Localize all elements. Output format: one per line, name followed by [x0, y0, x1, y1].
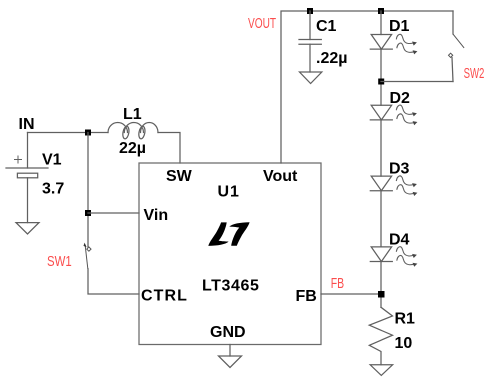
- svg-text:Vin: Vin: [144, 207, 169, 224]
- wire battery top lead: [27, 133, 29, 169]
- wire D1 to D2: [380, 49, 382, 105]
- node C1 junction dot: [307, 8, 313, 14]
- capacitor C1: [309, 11, 311, 40]
- LED D2: [370, 105, 417, 125]
- logo LT swoosh left: [208, 222, 228, 246]
- wire D3 to D4: [380, 191, 382, 247]
- node D1 top junction dot: [378, 8, 384, 14]
- battery V1: [6, 156, 48, 178]
- wire Vin tap to IC: [88, 212, 139, 214]
- LED D4: [370, 247, 417, 267]
- svg-text:U1: U1: [218, 184, 240, 201]
- node SW2 bottom junction dot: [378, 79, 384, 85]
- svg-text:V1: V1: [42, 152, 62, 169]
- svg-text:10: 10: [395, 335, 413, 352]
- svg-text:Vout: Vout: [263, 168, 298, 185]
- node IN junction dot: [85, 130, 91, 136]
- svg-text:D4: D4: [389, 232, 410, 249]
- wire battery to ground: [27, 178, 29, 223]
- LED D1: [370, 34, 417, 54]
- ground (C1): [300, 72, 322, 84]
- wire top rail to D1: [380, 11, 382, 35]
- op-amp U1 IC body LT3465: [139, 163, 321, 345]
- svg-text:C1: C1: [316, 18, 337, 35]
- svg-text:CTRL: CTRL: [141, 288, 188, 305]
- switch SW1: [84, 243, 92, 269]
- switch SW2: [448, 11, 463, 82]
- svg-text:IN: IN: [19, 116, 35, 133]
- wire SW1 bottom to CTRL pin: [88, 269, 139, 294]
- svg-text:3.7: 3.7: [42, 181, 64, 198]
- node Vin tap junction dot: [85, 210, 91, 216]
- wire FB pin: [321, 293, 381, 295]
- svg-text:D1: D1: [389, 18, 410, 35]
- logo LT swoosh right: [229, 222, 249, 246]
- ground (U1 GND): [219, 356, 242, 368]
- wire IN horizontal to junction and inductor: [28, 132, 109, 134]
- ground (R1): [370, 365, 392, 376]
- wire D4 to FB junction: [380, 262, 382, 308]
- svg-text:SW2: SW2: [464, 65, 485, 82]
- svg-text:L1: L1: [123, 106, 142, 123]
- wire D2 to D3: [380, 120, 382, 176]
- svg-text:D3: D3: [389, 161, 410, 178]
- svg-text:D2: D2: [390, 90, 411, 107]
- wire L1 to SW pin: [158, 133, 180, 164]
- resistor R1: [369, 307, 392, 365]
- wire SW2 bottom horizontal: [381, 81, 453, 83]
- svg-text:SW1: SW1: [47, 252, 72, 269]
- ground (battery): [16, 223, 39, 234]
- svg-text:FB: FB: [296, 288, 317, 305]
- svg-text:GND: GND: [210, 324, 246, 341]
- wire GND pin stub: [229, 345, 231, 357]
- svg-text:VOUT: VOUT: [248, 14, 276, 32]
- svg-text:FB: FB: [331, 274, 344, 291]
- svg-text:22µ: 22µ: [119, 140, 146, 157]
- svg-text:.22µ: .22µ: [316, 50, 347, 67]
- svg-text:SW: SW: [166, 168, 193, 185]
- node FB junction dot: [378, 291, 385, 298]
- inductor L1: [108, 123, 158, 133]
- wire Vout pin up and top rail: [281, 11, 453, 163]
- svg-text:R1: R1: [395, 311, 416, 328]
- wire down left rail to SW1: [87, 133, 89, 248]
- svg-text:LT3465: LT3465: [202, 278, 260, 295]
- LED D3: [370, 176, 417, 196]
